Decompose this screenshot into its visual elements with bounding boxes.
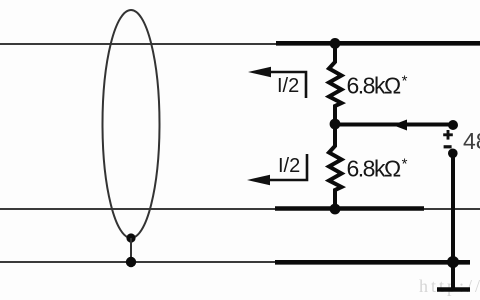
- wire: bottom line thin left segment: [0, 261, 277, 263]
- node: top line junction: [330, 38, 341, 49]
- svg-text:http://: http://: [419, 276, 480, 296]
- label plus: [443, 130, 453, 140]
- svg-text:48 V: 48 V: [463, 128, 480, 154]
- current arrow I/2 upper: [248, 67, 306, 98]
- wire: battery negative down to ground: [451, 153, 455, 288]
- arrowhead on tap wire pointing left: [393, 120, 408, 131]
- node: middle line junction: [330, 204, 341, 215]
- resistor R1 zigzag: [329, 44, 342, 124]
- node: ellipse bottom dot: [126, 233, 135, 242]
- svg-text:6.8kΩ*: 6.8kΩ*: [347, 156, 408, 182]
- svg-text:I/2: I/2: [277, 75, 299, 97]
- wire: mid tap to battery: [335, 123, 451, 127]
- wire: middle line thin right segment: [424, 208, 480, 210]
- node: bottom line junction: [447, 256, 459, 268]
- wire: middle line thin left segment: [0, 208, 277, 210]
- wire: ellipse bottom to shield line: [130, 238, 132, 262]
- ground bar: [437, 287, 470, 292]
- wire: top line thin left segment: [0, 43, 278, 45]
- label minus: [444, 145, 452, 148]
- wire: top line thick right segment: [276, 41, 480, 46]
- svg-text:6.8kΩ*: 6.8kΩ*: [347, 73, 408, 99]
- node: mid junction between resistors: [330, 119, 341, 130]
- node: shield junction dot: [126, 257, 136, 267]
- wire: middle line thick segment: [275, 206, 424, 211]
- current arrow I/2 lower: [247, 154, 307, 185]
- battery negative terminal dot: [448, 149, 458, 159]
- wire: bottom line thick segment: [275, 260, 470, 265]
- svg-text:I/2: I/2: [278, 155, 300, 177]
- battery positive terminal dot: [448, 120, 458, 130]
- resistor R2 zigzag: [329, 124, 342, 209]
- cable loop ellipse: [103, 10, 160, 238]
